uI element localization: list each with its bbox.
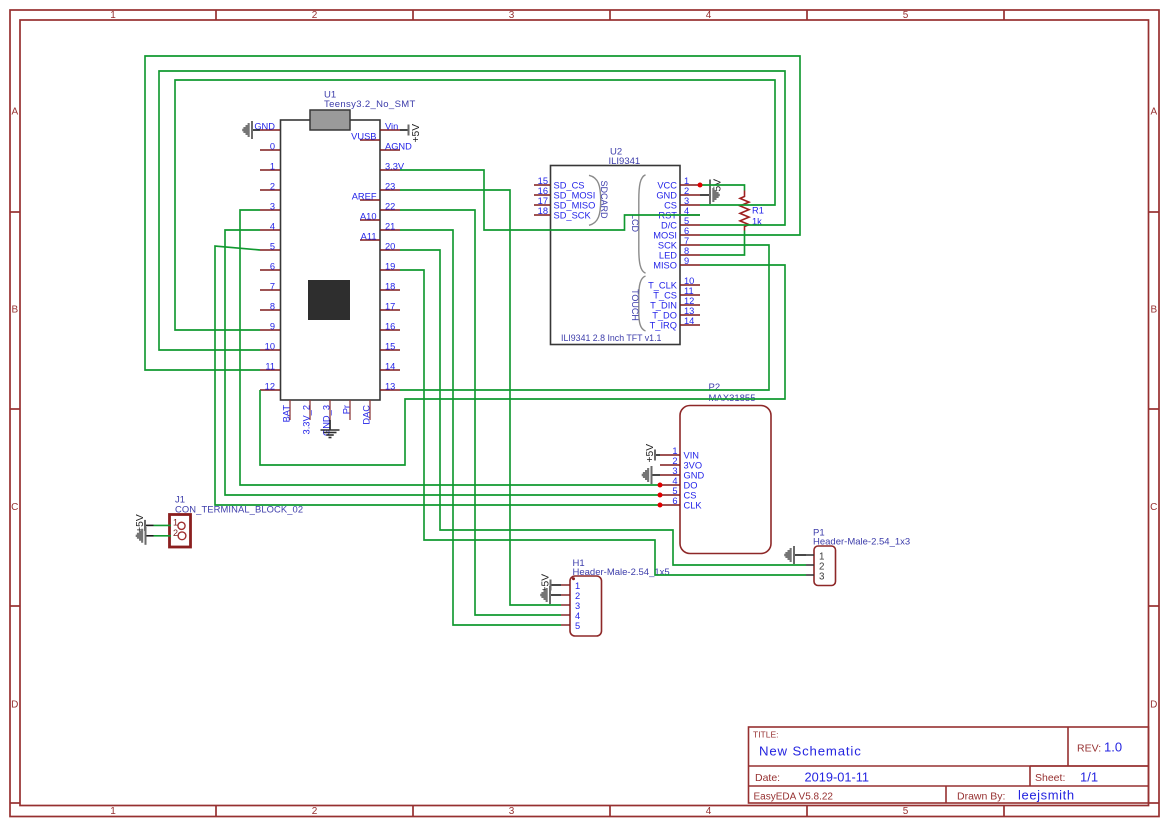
svg-text:REV:: REV:	[1077, 743, 1101, 755]
U2 pin 6 MOSI	[653, 226, 700, 241]
ground at P1 pin 1	[784, 546, 806, 564]
+5V flag at U1 Vin pin	[400, 124, 422, 143]
svg-text:DO: DO	[684, 481, 698, 491]
U1 chip box	[308, 280, 350, 320]
U1 pin 3.3V (right)	[380, 161, 405, 171]
svg-text:1: 1	[173, 518, 178, 528]
svg-text:GND: GND	[684, 471, 705, 481]
svg-text:TOUCH: TOUCH	[630, 289, 640, 321]
svg-text:LED: LED	[659, 251, 677, 261]
svg-text:+5V: +5V	[645, 444, 656, 463]
svg-text:C: C	[1150, 502, 1157, 513]
wire U1 20 to P1 pin 2	[400, 250, 806, 565]
svg-text:AGND: AGND	[385, 141, 412, 151]
component P2 MAX31855 body	[680, 406, 771, 554]
svg-text:A: A	[1150, 107, 1157, 118]
svg-text:2: 2	[312, 806, 318, 817]
U1 pin 12 (left)	[260, 381, 280, 391]
wire U1 5 to P2 CLK	[215, 246, 660, 505]
U2 pin 5 D/C	[661, 216, 700, 231]
svg-text:CLK: CLK	[684, 501, 703, 511]
wire U1 12 to U2 MISO	[260, 265, 785, 465]
svg-text:2: 2	[270, 181, 275, 191]
U1 pin DAC (bottom)	[362, 400, 372, 425]
svg-text:14: 14	[684, 316, 694, 326]
U1 pin 17 (right)	[380, 301, 400, 311]
wire U2 VCC to R1 top	[700, 185, 745, 191]
U2 pin 11 T_CS	[653, 286, 700, 301]
U1 pin GND (left)	[254, 121, 280, 131]
svg-text:EasyEDA V5.8.22: EasyEDA V5.8.22	[754, 791, 834, 802]
svg-text:SD_MISO: SD_MISO	[554, 201, 596, 211]
svg-text:SD_MOSI: SD_MOSI	[554, 191, 596, 201]
resistor R1 1k	[740, 191, 749, 231]
U2 pin 7 SCK	[658, 236, 700, 251]
+5V flag at P2 VIN pin	[645, 444, 660, 463]
svg-text:20: 20	[385, 241, 395, 251]
svg-text:3.3V_2: 3.3V_2	[302, 405, 312, 434]
svg-text:2: 2	[173, 528, 178, 538]
svg-text:8: 8	[684, 246, 689, 256]
U2 LCD group brace	[639, 175, 646, 273]
svg-text:11: 11	[684, 286, 694, 296]
svg-text:SD_SCK: SD_SCK	[554, 211, 592, 221]
svg-text:3: 3	[575, 601, 580, 611]
H1 pin 3	[561, 601, 580, 611]
component J1 CON_TERMINAL_BLOCK_02 body	[170, 515, 191, 548]
svg-text:A10: A10	[360, 211, 377, 221]
component U2 ILI9341 body	[551, 166, 681, 345]
svg-text:1: 1	[575, 581, 580, 591]
svg-text:14: 14	[385, 361, 395, 371]
junction at P2 CLK	[658, 503, 663, 508]
U1 pin 14 (right)	[380, 361, 400, 371]
ground at U2 GND pin	[700, 186, 720, 204]
U1 USB connector box	[310, 110, 350, 130]
svg-text:A: A	[11, 107, 18, 118]
svg-text:6: 6	[684, 226, 689, 236]
svg-text:T_CS: T_CS	[653, 291, 677, 301]
svg-text:4: 4	[706, 10, 712, 21]
P1 pin 1	[806, 552, 824, 563]
U1 pin 3.3V_2 (bottom)	[302, 400, 312, 434]
svg-text:Vin: Vin	[385, 121, 398, 131]
svg-text:2019-01-11: 2019-01-11	[805, 769, 870, 784]
svg-text:1: 1	[110, 10, 116, 21]
U1 pin AGND (right)	[380, 141, 412, 151]
U1 pin VUSB (inner right)	[351, 131, 380, 141]
svg-text:19: 19	[385, 261, 395, 271]
U2 pin 13 T_DO	[652, 306, 700, 321]
svg-text:23: 23	[385, 181, 395, 191]
svg-text:11: 11	[265, 361, 275, 371]
svg-text:leejsmith: leejsmith	[1018, 788, 1075, 803]
U2 pin 15 SD_CS	[534, 176, 585, 191]
svg-text:P2: P2	[709, 382, 721, 393]
svg-text:15: 15	[385, 341, 395, 351]
svg-text:3: 3	[672, 466, 677, 476]
U2 pin 12 T_DIN	[650, 296, 700, 311]
U2 pin 16 SD_MOSI	[534, 186, 595, 201]
svg-text:VCC: VCC	[657, 181, 677, 191]
svg-text:Pr: Pr	[342, 405, 352, 414]
svg-text:5: 5	[270, 241, 275, 251]
svg-text:CS: CS	[684, 491, 697, 501]
svg-text:Header-Male-2.54_1x3: Header-Male-2.54_1x3	[813, 537, 910, 548]
wire U1 11 to U2 MOSI	[145, 56, 800, 370]
svg-text:12: 12	[684, 296, 694, 306]
U2 pin 17 SD_MISO	[534, 196, 595, 211]
svg-text:0: 0	[270, 141, 275, 151]
svg-text:1.0: 1.0	[1104, 740, 1122, 755]
svg-text:BAT: BAT	[282, 405, 292, 423]
svg-text:6: 6	[270, 261, 275, 271]
svg-text:D: D	[11, 700, 18, 711]
svg-text:VIN: VIN	[684, 451, 700, 461]
U1 pin 7 (left)	[260, 281, 280, 291]
wire U1 10 to U2 D/C	[159, 71, 785, 350]
svg-text:4: 4	[575, 611, 580, 621]
U2 pin 18 SD_SCK	[534, 206, 592, 221]
svg-text:1: 1	[672, 446, 677, 456]
svg-text:13: 13	[385, 381, 395, 391]
U1 pin 15 (right)	[380, 341, 400, 351]
U1 pin Pr (bottom)	[342, 400, 352, 420]
wire U1 21 to H1 pin 5	[400, 230, 561, 625]
ground at U1 GND_3 pin	[321, 420, 340, 438]
U1 pin 1 (left)	[260, 161, 280, 171]
svg-text:3: 3	[684, 196, 689, 206]
svg-text:3: 3	[819, 572, 825, 583]
P2 pin 1 VIN	[660, 446, 699, 460]
junction at P2 DO	[658, 483, 663, 488]
U1 pin A10 (inner right)	[360, 211, 380, 221]
U1 pin 9 (left)	[260, 321, 280, 331]
U1 pin 23 (right)	[380, 181, 400, 191]
svg-text:10: 10	[265, 341, 275, 351]
svg-text:2: 2	[684, 186, 689, 196]
P2 pin 2 3VO	[660, 456, 702, 470]
U2 pin 9 MISO	[653, 256, 700, 271]
svg-text:C: C	[11, 502, 18, 513]
svg-text:17: 17	[385, 301, 395, 311]
svg-text:GND: GND	[656, 191, 677, 201]
svg-text:4: 4	[270, 221, 275, 231]
component U1 Teensy3.2_No_SMT body	[281, 120, 381, 400]
wire J1 pin 1 to +5V	[154, 524, 172, 526]
svg-text:3VO: 3VO	[684, 461, 703, 471]
svg-text:MISO: MISO	[653, 261, 677, 271]
J1 terminal circles	[178, 522, 185, 529]
U1 pin 3 (left)	[260, 201, 280, 211]
wire U1 4 to P2 CS	[225, 230, 660, 495]
svg-text:2: 2	[575, 591, 580, 601]
svg-text:18: 18	[538, 206, 548, 216]
wire U1 13 to U2 SCK	[400, 245, 769, 390]
svg-text:1: 1	[684, 176, 689, 186]
svg-text:T_IRQ: T_IRQ	[650, 321, 677, 331]
svg-text:5: 5	[684, 216, 689, 226]
wire J1 pin 2 to ground	[154, 535, 172, 537]
svg-text:7: 7	[270, 281, 275, 291]
U1 pin BAT (bottom)	[282, 400, 292, 422]
svg-text:21: 21	[385, 221, 395, 231]
svg-text:3: 3	[270, 201, 275, 211]
svg-text:12: 12	[265, 381, 275, 391]
svg-text:LCD: LCD	[630, 214, 640, 233]
+5V flag at U2 VCC pin	[710, 179, 723, 198]
svg-text:5: 5	[672, 486, 677, 496]
P2 pin 3 GND	[660, 466, 704, 480]
junction at U2 VCC	[698, 183, 703, 188]
title block	[749, 727, 1149, 803]
U2 SDCARD group brace	[589, 175, 601, 225]
svg-text:4: 4	[672, 476, 677, 486]
svg-text:1: 1	[270, 161, 275, 171]
H1 pin 1	[561, 581, 580, 591]
U2 pin 4 RST	[658, 206, 700, 221]
U2 pin 8 LED	[659, 246, 700, 261]
svg-text:MOSI: MOSI	[653, 231, 677, 241]
svg-text:17: 17	[538, 196, 548, 206]
svg-text:SD_CS: SD_CS	[554, 181, 585, 191]
svg-text:SDCARD: SDCARD	[599, 180, 609, 219]
svg-text:6: 6	[672, 496, 677, 506]
svg-text:22: 22	[385, 201, 395, 211]
svg-text:2: 2	[672, 456, 677, 466]
svg-text:T_CLK: T_CLK	[648, 281, 678, 291]
wire U1 19 to P1 pin 3	[400, 270, 806, 575]
svg-text:Date:: Date:	[755, 772, 780, 784]
wire U1 22 to H1 pin 4	[400, 210, 561, 615]
svg-text:A11: A11	[361, 231, 377, 241]
H1 pin 2	[561, 591, 580, 601]
svg-text:CS: CS	[664, 201, 677, 211]
U1 pin 6 (left)	[260, 261, 280, 271]
svg-text:B: B	[1150, 305, 1157, 316]
svg-text:16: 16	[538, 186, 548, 196]
P1 pin 3	[806, 572, 825, 583]
svg-text:8: 8	[270, 301, 275, 311]
svg-text:T_DO: T_DO	[652, 311, 677, 321]
U2 TOUCH group brace	[639, 276, 646, 331]
svg-text:VUSB: VUSB	[351, 131, 376, 141]
svg-text:+5V: +5V	[135, 514, 146, 533]
U1 pin AREF (inner right)	[352, 191, 380, 201]
svg-text:1/1: 1/1	[1080, 769, 1098, 784]
svg-text:T_DIN: T_DIN	[650, 301, 677, 311]
svg-text:AREF: AREF	[352, 191, 377, 201]
svg-text:5: 5	[903, 10, 909, 21]
svg-text:9: 9	[270, 321, 275, 331]
U1 pin 22 (right)	[380, 201, 400, 211]
svg-text:D/C: D/C	[661, 221, 677, 231]
U1 pin 11 (left)	[260, 361, 280, 371]
svg-text:9: 9	[684, 256, 689, 266]
U1 pin 8 (left)	[260, 301, 280, 311]
svg-text:D: D	[1150, 700, 1157, 711]
U1 pin 10 (left)	[260, 341, 280, 351]
U2 pin 3 CS	[664, 196, 700, 211]
+5V flag at J1 pin 1	[135, 514, 154, 533]
svg-text:DAC: DAC	[362, 405, 372, 425]
U1 pin 5 (left)	[260, 241, 280, 251]
U1 pin Vin (right)	[380, 121, 400, 131]
svg-text:1: 1	[110, 806, 116, 817]
U2 pin 10 T_CLK	[648, 276, 700, 291]
svg-text:Drawn By:: Drawn By:	[957, 790, 1005, 802]
svg-text:3: 3	[509, 10, 515, 21]
svg-text:7: 7	[684, 236, 689, 246]
ground at U1 GND pin	[242, 121, 260, 139]
svg-text:TITLE:: TITLE:	[753, 730, 779, 740]
svg-text:5: 5	[575, 621, 580, 631]
component H1 Header-Male-2.54_1x5 body	[570, 576, 602, 636]
U1 pin 19 (right)	[380, 261, 400, 271]
P2 pin 5 CS	[660, 486, 696, 500]
ground at J1 pin 2	[136, 527, 154, 545]
U1 pin 4 (left)	[260, 221, 280, 231]
svg-text:ILI9341: ILI9341	[609, 156, 641, 167]
wire R1 bottom to U2 LED	[700, 231, 745, 256]
svg-text:2: 2	[312, 10, 318, 21]
H1 pin 4	[561, 611, 580, 621]
U2 pin 2 GND	[656, 186, 700, 201]
svg-text:R1: R1	[752, 206, 764, 216]
svg-text:5: 5	[903, 806, 909, 817]
svg-text:16: 16	[385, 321, 395, 331]
U1 pin 18 (right)	[380, 281, 400, 291]
svg-text:4: 4	[706, 806, 712, 817]
U1 pin GND_3 (bottom)	[322, 400, 332, 436]
U1 pin 16 (right)	[380, 321, 400, 331]
U2 pin 1 VCC	[657, 176, 700, 191]
ground at P2 GND pin	[642, 466, 660, 484]
U1 pin 21 (right)	[380, 221, 400, 231]
wire U1 9 to U2 CS	[175, 80, 775, 330]
H1 pin 5	[561, 621, 580, 631]
U1 pin 13 (right)	[380, 381, 400, 391]
svg-text:3: 3	[509, 806, 515, 817]
U1 pin 0 (left)	[260, 141, 280, 151]
component P1 Header-Male-2.54_1x3 body	[814, 546, 836, 586]
svg-text:15: 15	[538, 176, 548, 186]
P1 pin 2	[806, 562, 824, 573]
wire U1 3 to P2 DO	[240, 210, 660, 485]
svg-text:10: 10	[684, 276, 694, 286]
H1 pin-1 marker dot	[572, 577, 575, 580]
svg-text:B: B	[11, 305, 18, 316]
U1 pin 2 (left)	[260, 181, 280, 191]
wire U1 3.3V to U2 RST	[400, 170, 700, 230]
P2 pin 6 CLK	[660, 496, 702, 510]
ground at H1 pin 2	[540, 586, 561, 604]
svg-text:New Schematic: New Schematic	[759, 744, 862, 759]
wire U1 23 to H1 pin 3	[400, 190, 561, 605]
junction at P2 CS	[658, 493, 663, 498]
U1 pin A11 (inner right)	[360, 231, 380, 241]
svg-text:13: 13	[684, 306, 694, 316]
U1 pin 20 (right)	[380, 241, 400, 251]
P2 pin 4 DO	[660, 476, 697, 490]
svg-text:18: 18	[385, 281, 395, 291]
U2 pin 14 T_IRQ	[650, 316, 700, 331]
svg-text:ILI9341 2.8 Inch TFT v1.1: ILI9341 2.8 Inch TFT v1.1	[561, 333, 662, 343]
svg-text:SCK: SCK	[658, 241, 678, 251]
svg-text:+5V: +5V	[411, 124, 422, 143]
svg-text:Sheet:: Sheet:	[1035, 772, 1065, 784]
svg-text:Teensy3.2_No_SMT: Teensy3.2_No_SMT	[324, 99, 416, 110]
+5V flag at H1 pin 1	[541, 574, 562, 593]
